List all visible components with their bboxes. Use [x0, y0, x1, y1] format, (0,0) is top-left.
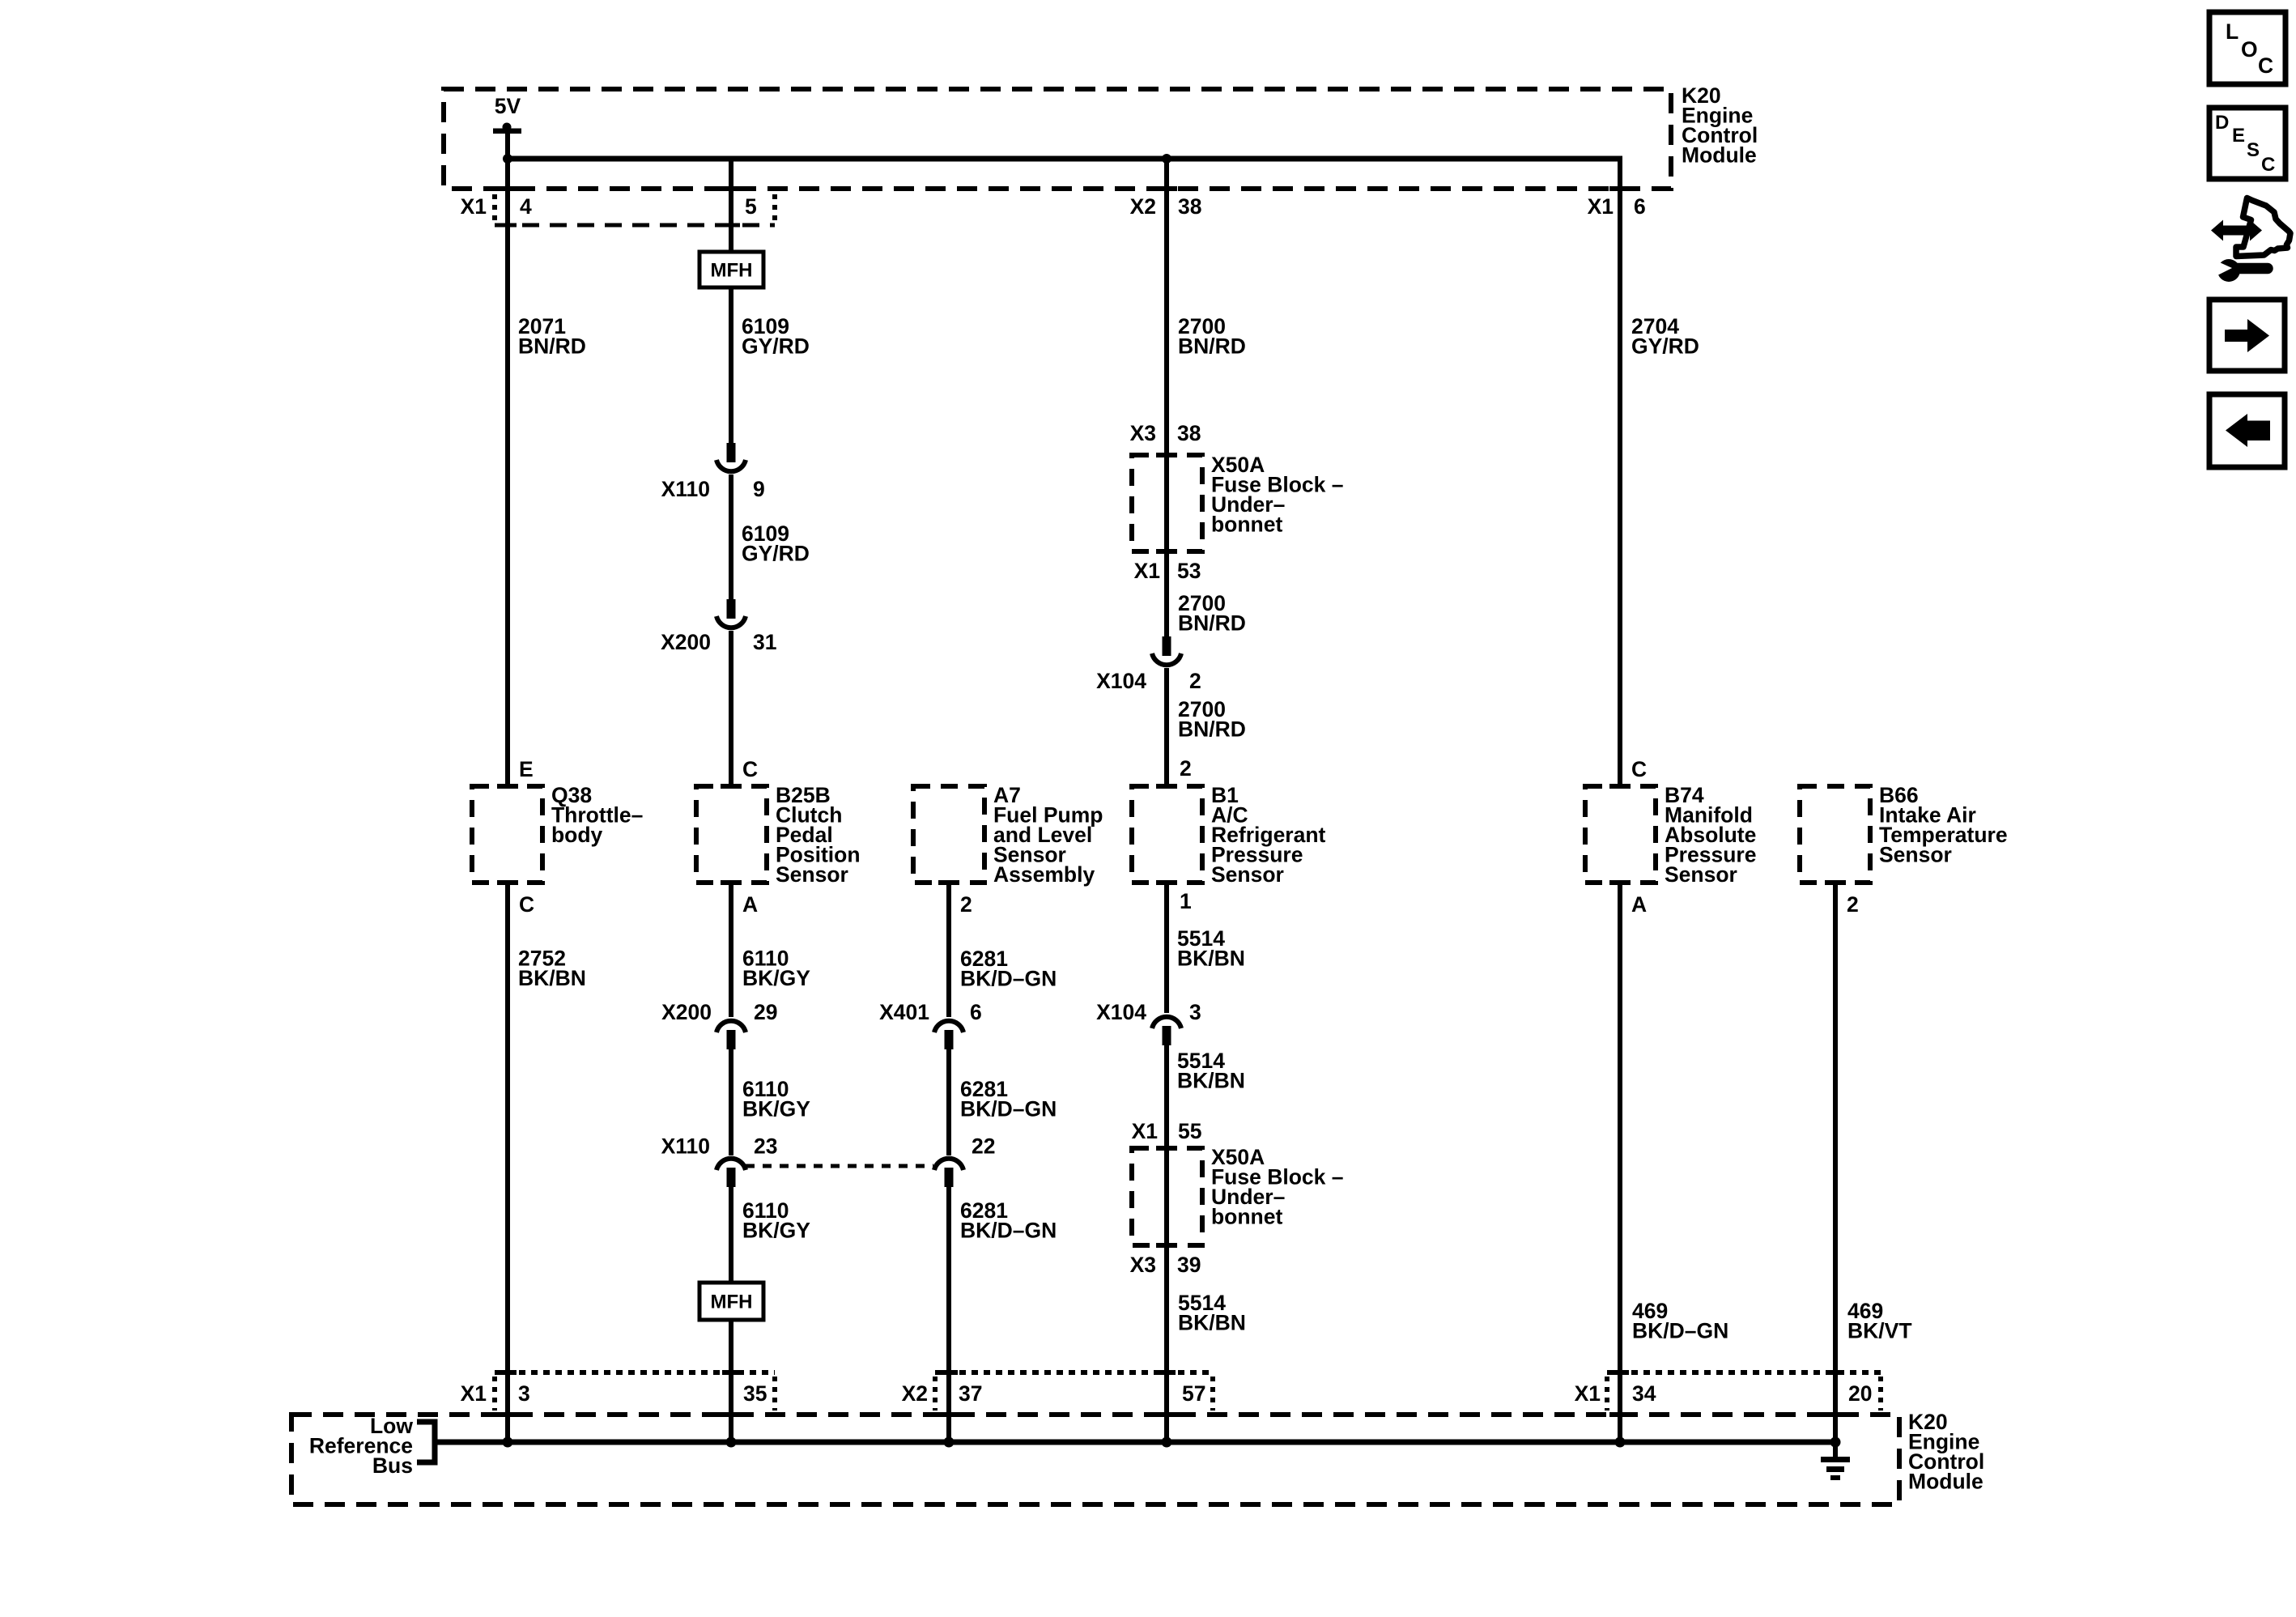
- pin tick X50A X3-39: [1156, 1243, 1177, 1248]
- wire 2700 BN/RD (fuse block X1-53 to X104-2): [1167, 551, 1246, 636]
- pin tick row C pin 34: [1611, 1370, 1629, 1375]
- component B1 A/C Refrigerant Pressure Sensor: [1132, 783, 1326, 887]
- fuse block X50A Under-bonnet (lower): [1132, 1145, 1343, 1245]
- svg-text:X2: X2: [902, 1381, 928, 1406]
- pin tick X50A X1-55: [1156, 1146, 1177, 1151]
- svg-text:X3: X3: [1130, 1253, 1156, 1277]
- svg-text:BK/GY: BK/GY: [742, 1219, 810, 1243]
- svg-text:X110: X110: [661, 1134, 710, 1159]
- svg-text:BK/D–GN: BK/D–GN: [960, 1097, 1057, 1121]
- svg-text:C: C: [2261, 154, 2275, 176]
- junction dot bus-6110: [726, 1437, 737, 1448]
- wire 6110 BK/GY (X200-29 to X110-23): [731, 1049, 810, 1155]
- pin tick Q38-C: [497, 880, 518, 885]
- svg-text:X104: X104: [1096, 669, 1146, 693]
- pin ticks on ECM bottom box top edge: [497, 1412, 518, 1417]
- svg-text:23: 23: [754, 1134, 777, 1159]
- wire 2700 BN/RD (X104-2 to A/C pressure sensor pin 2): [1167, 668, 1246, 786]
- wire 5514 BK/BN (X104-3 to fuse block X1-55): [1167, 1045, 1245, 1148]
- svg-text:BK/BN: BK/BN: [1177, 1069, 1245, 1093]
- wire 6110 BK/GY (MFH to ECM X1-35): [729, 1320, 733, 1442]
- pin tick crossing below pin 4: [499, 223, 517, 228]
- svg-text:S: S: [2247, 139, 2260, 161]
- wire low reference bus (bottom horizontal): [436, 1440, 1835, 1445]
- svg-text:38: 38: [1178, 194, 1201, 219]
- wire 2071 BN/RD (ECM X1-4 to throttle body): [508, 130, 586, 786]
- 5V supply terminal: [493, 94, 521, 134]
- svg-text:O: O: [2241, 37, 2258, 62]
- svg-text:X200: X200: [661, 1000, 712, 1024]
- pin tick row A pin 3: [499, 1370, 517, 1375]
- pin tick crossing below pin 5: [722, 223, 740, 228]
- connector pin label X2 38: [1130, 194, 1202, 219]
- wire 5514 BK/BN (fuse block X3-39 to ECM pin 57): [1167, 1245, 1246, 1442]
- junction dot bus-5514: [1162, 1437, 1172, 1448]
- junction dot at 2700 tap: [1162, 154, 1171, 164]
- wire through fuse block: [1164, 455, 1169, 551]
- wire 6109 GY/RD (X200-31 to clutch pedal sensor pin C): [729, 631, 733, 786]
- module K20 Engine Control Module (top): [444, 83, 1758, 189]
- wire 469 BK/VT (B66-2 to ECM pin 20 ground): [1835, 883, 1912, 1442]
- wire 5514 BK/BN (B1-1 to X104-3): [1167, 883, 1245, 1013]
- svg-text:X1: X1: [1575, 1381, 1601, 1406]
- svg-text:BK/GY: BK/GY: [742, 966, 810, 990]
- pin tick row C pin 20: [1826, 1370, 1844, 1375]
- svg-text:5V: 5V: [495, 94, 521, 118]
- svg-text:2: 2: [1180, 756, 1192, 781]
- inline connector X401 pin 22: [934, 1134, 995, 1188]
- pin tick X50A X1-53: [1156, 549, 1177, 554]
- svg-text:A: A: [1631, 892, 1647, 917]
- pin tick X2-38: [1156, 186, 1177, 191]
- svg-text:L: L: [2226, 19, 2239, 44]
- svg-text:D: D: [2215, 112, 2229, 134]
- svg-text:BN/RD: BN/RD: [518, 334, 586, 359]
- svg-text:3: 3: [518, 1381, 530, 1406]
- module K20 Engine Control Module (bottom): [291, 1410, 1984, 1504]
- connector pin row X1 pins 34 and 20: [1575, 1372, 1881, 1411]
- svg-text:1: 1: [1180, 889, 1192, 913]
- svg-text:Sensor: Sensor: [1665, 862, 1737, 887]
- svg-text:X1: X1: [1134, 559, 1160, 583]
- svg-text:C: C: [519, 892, 534, 917]
- svg-text:bonnet: bonnet: [1211, 513, 1282, 537]
- junction dot bus-6281: [944, 1437, 955, 1448]
- svg-text:5: 5: [745, 194, 757, 219]
- wire 6109 GY/RD (X110-9 to X200-31): [731, 474, 810, 599]
- connector tie line X110/X401 (dotted): [746, 1164, 933, 1168]
- svg-text:34: 34: [1632, 1381, 1656, 1406]
- svg-text:C: C: [742, 757, 758, 781]
- wire 6110 BK/GY (B25B-A to X200-29): [731, 883, 810, 1017]
- svg-text:35: 35: [743, 1381, 767, 1406]
- svg-text:39: 39: [1177, 1253, 1201, 1277]
- wire 2752 BK/BN (throttle body to ECM X1-3): [508, 883, 586, 1442]
- svg-text:BK/D–GN: BK/D–GN: [1632, 1319, 1728, 1343]
- svg-text:E: E: [2232, 125, 2245, 147]
- svg-text:GY/RD: GY/RD: [1631, 334, 1699, 359]
- pin tick X1-5: [721, 186, 742, 191]
- connector pin label X3 38: [1130, 421, 1201, 445]
- svg-text:55: 55: [1178, 1119, 1201, 1143]
- pin tick Q38-E: [497, 784, 518, 789]
- splice MFH (bottom): [699, 1283, 763, 1320]
- svg-text:BK/D–GN: BK/D–GN: [960, 1219, 1057, 1243]
- icon DESC box: [2209, 108, 2285, 179]
- junction dot at 5V feed: [503, 154, 512, 164]
- ground symbol (ECM internal ground): [1821, 1442, 1850, 1480]
- svg-text:bonnet: bonnet: [1211, 1205, 1282, 1229]
- connector pin label X1 6: [1588, 194, 1646, 219]
- svg-text:20: 20: [1848, 1381, 1872, 1406]
- svg-text:C: C: [2258, 53, 2273, 78]
- svg-text:4: 4: [520, 194, 532, 219]
- svg-text:53: 53: [1177, 559, 1201, 583]
- junction dot bus-469: [1615, 1437, 1626, 1448]
- net label Low Reference Bus: [309, 1414, 414, 1478]
- svg-text:22: 22: [972, 1134, 995, 1159]
- svg-text:X3: X3: [1130, 421, 1156, 445]
- svg-text:31: 31: [753, 630, 776, 654]
- svg-text:X2: X2: [1130, 194, 1156, 219]
- pin tick B1-1: [1156, 880, 1177, 885]
- svg-text:GY/RD: GY/RD: [742, 542, 810, 566]
- svg-text:Assembly: Assembly: [993, 862, 1095, 887]
- svg-text:X1: X1: [461, 1381, 487, 1406]
- svg-text:GY/RD: GY/RD: [742, 334, 810, 359]
- component B66 Intake Air Temperature Sensor: [1800, 783, 2008, 883]
- pin tick A7-2: [938, 880, 959, 885]
- svg-text:X104: X104: [1096, 1000, 1146, 1024]
- svg-text:Sensor: Sensor: [776, 862, 848, 887]
- wire 6109 GY/RD (ECM X1-5 to MFH): [729, 159, 733, 252]
- svg-text:BK/D–GN: BK/D–GN: [960, 967, 1057, 991]
- svg-text:X1: X1: [1588, 194, 1614, 219]
- svg-text:BK/BN: BK/BN: [518, 966, 586, 990]
- connector pin row X2 pins 37 and 57: [902, 1372, 1213, 1411]
- svg-text:body: body: [551, 823, 603, 847]
- svg-text:38: 38: [1177, 421, 1201, 445]
- svg-text:BK/BN: BK/BN: [1177, 947, 1245, 971]
- icon glove with double arrow and wrench: [2211, 198, 2290, 283]
- wire 6109 GY/RD (MFH to X110-9): [731, 287, 810, 443]
- inline connector X104 pin 3: [1096, 1000, 1201, 1045]
- svg-text:2: 2: [1189, 669, 1201, 693]
- wire 2704 GY/RD (ECM X1-6 to MAP sensor pin C): [1620, 159, 1699, 786]
- svg-text:C: C: [1631, 757, 1647, 781]
- pin tick row B pin 37: [940, 1370, 958, 1375]
- connector pin label X1 53: [1134, 559, 1201, 583]
- junction dot bus-ground: [1830, 1437, 1841, 1448]
- svg-text:BN/RD: BN/RD: [1178, 334, 1246, 359]
- fuse block X50A Under-bonnet (upper): [1132, 453, 1343, 551]
- svg-text:MFH: MFH: [711, 1291, 753, 1313]
- component A7 Fuel Pump and Level Sensor Assembly: [913, 783, 1103, 887]
- pin tick row B pin 57: [1158, 1370, 1176, 1375]
- junction dot bus-2752: [503, 1437, 513, 1448]
- svg-text:3: 3: [1189, 1000, 1201, 1024]
- svg-text:X1: X1: [1132, 1119, 1158, 1143]
- svg-text:X200: X200: [661, 630, 711, 654]
- svg-text:MFH: MFH: [711, 260, 753, 282]
- connector pin label X3 39: [1130, 1253, 1201, 1277]
- wire 6110 BK/GY (X110-23 to MFH): [731, 1187, 810, 1283]
- pin tick B25B-A: [721, 880, 742, 885]
- svg-text:6: 6: [1634, 194, 1646, 219]
- svg-text:BN/RD: BN/RD: [1178, 717, 1246, 742]
- pin tick B25B-C: [721, 784, 742, 789]
- svg-text:29: 29: [754, 1000, 777, 1024]
- pin tick B74-A: [1609, 880, 1631, 885]
- icon arrow right box: [2209, 300, 2285, 371]
- pin tick X1-4: [497, 186, 518, 191]
- connector pin label X1 55: [1132, 1119, 1202, 1143]
- svg-text:Sensor: Sensor: [1211, 862, 1284, 887]
- wire 6281 BK/D-GN (pin 22 to ECM X2-37): [949, 1187, 1057, 1442]
- wire through fuse block (lower): [1164, 1148, 1169, 1245]
- svg-text:2: 2: [960, 892, 972, 917]
- svg-text:6: 6: [970, 1000, 982, 1024]
- svg-text:57: 57: [1182, 1381, 1205, 1406]
- wire 2700 BN/RD (ECM X2-38 to fuse block X3-38): [1167, 159, 1246, 455]
- svg-text:BK/BN: BK/BN: [1178, 1311, 1246, 1335]
- svg-text:Sensor: Sensor: [1879, 843, 1952, 867]
- pin tick B1-2: [1156, 784, 1177, 789]
- svg-text:BK/GY: BK/GY: [742, 1097, 810, 1121]
- icon LOC box: [2209, 12, 2285, 84]
- pin tick X1-6: [1609, 186, 1631, 191]
- inline connector X110 pin 23: [661, 1134, 778, 1188]
- component B74 Manifold Absolute Pressure Sensor: [1585, 783, 1756, 887]
- bus bracket: [417, 1422, 435, 1462]
- pin tick row A pin 35: [722, 1370, 740, 1375]
- svg-text:X401: X401: [879, 1000, 929, 1024]
- wire 469 BK/D-GN (B74-A to ECM X1-34): [1620, 883, 1728, 1442]
- svg-text:A: A: [742, 892, 758, 917]
- connector pin row X1 pins 3 and 35: [461, 1372, 775, 1411]
- component B25B Clutch Pedal Position Sensor: [696, 783, 861, 887]
- inline connector X104 pin 2: [1096, 636, 1201, 693]
- svg-text:9: 9: [753, 477, 765, 501]
- svg-text:X1: X1: [461, 194, 487, 219]
- svg-text:Module: Module: [1908, 1470, 1983, 1494]
- svg-text:X110: X110: [661, 477, 710, 501]
- component Q38 Throttle body: [472, 783, 643, 883]
- wire 6281 BK/D-GN (X401-6 to pin 22): [949, 1049, 1057, 1155]
- svg-text:Bus: Bus: [372, 1453, 413, 1478]
- pin tick X50A X3-38: [1156, 453, 1177, 457]
- icon arrow left box: [2209, 394, 2285, 467]
- svg-text:Module: Module: [1682, 143, 1757, 168]
- pin tick B66-2: [1825, 880, 1846, 885]
- pin tick B74-C: [1609, 784, 1631, 789]
- inline connector X200 pin 31: [661, 599, 776, 654]
- svg-text:37: 37: [959, 1381, 982, 1406]
- inline connector X401 pin 6: [879, 1000, 982, 1049]
- svg-text:BN/RD: BN/RD: [1178, 611, 1246, 636]
- splice MFH (top): [699, 252, 763, 287]
- svg-text:E: E: [519, 757, 534, 781]
- inline connector X200 pin 29: [661, 1000, 777, 1049]
- wire 5V reference bus (top horizontal): [508, 156, 1622, 162]
- wire 6281 BK/D-GN (A7-2 to X401-6): [949, 883, 1057, 1017]
- inline connector X110 pin 9: [661, 443, 765, 501]
- connector pin row X1 pins 4 and 5: [461, 194, 775, 225]
- svg-text:BK/VT: BK/VT: [1847, 1319, 1912, 1343]
- svg-text:2: 2: [1847, 892, 1859, 917]
